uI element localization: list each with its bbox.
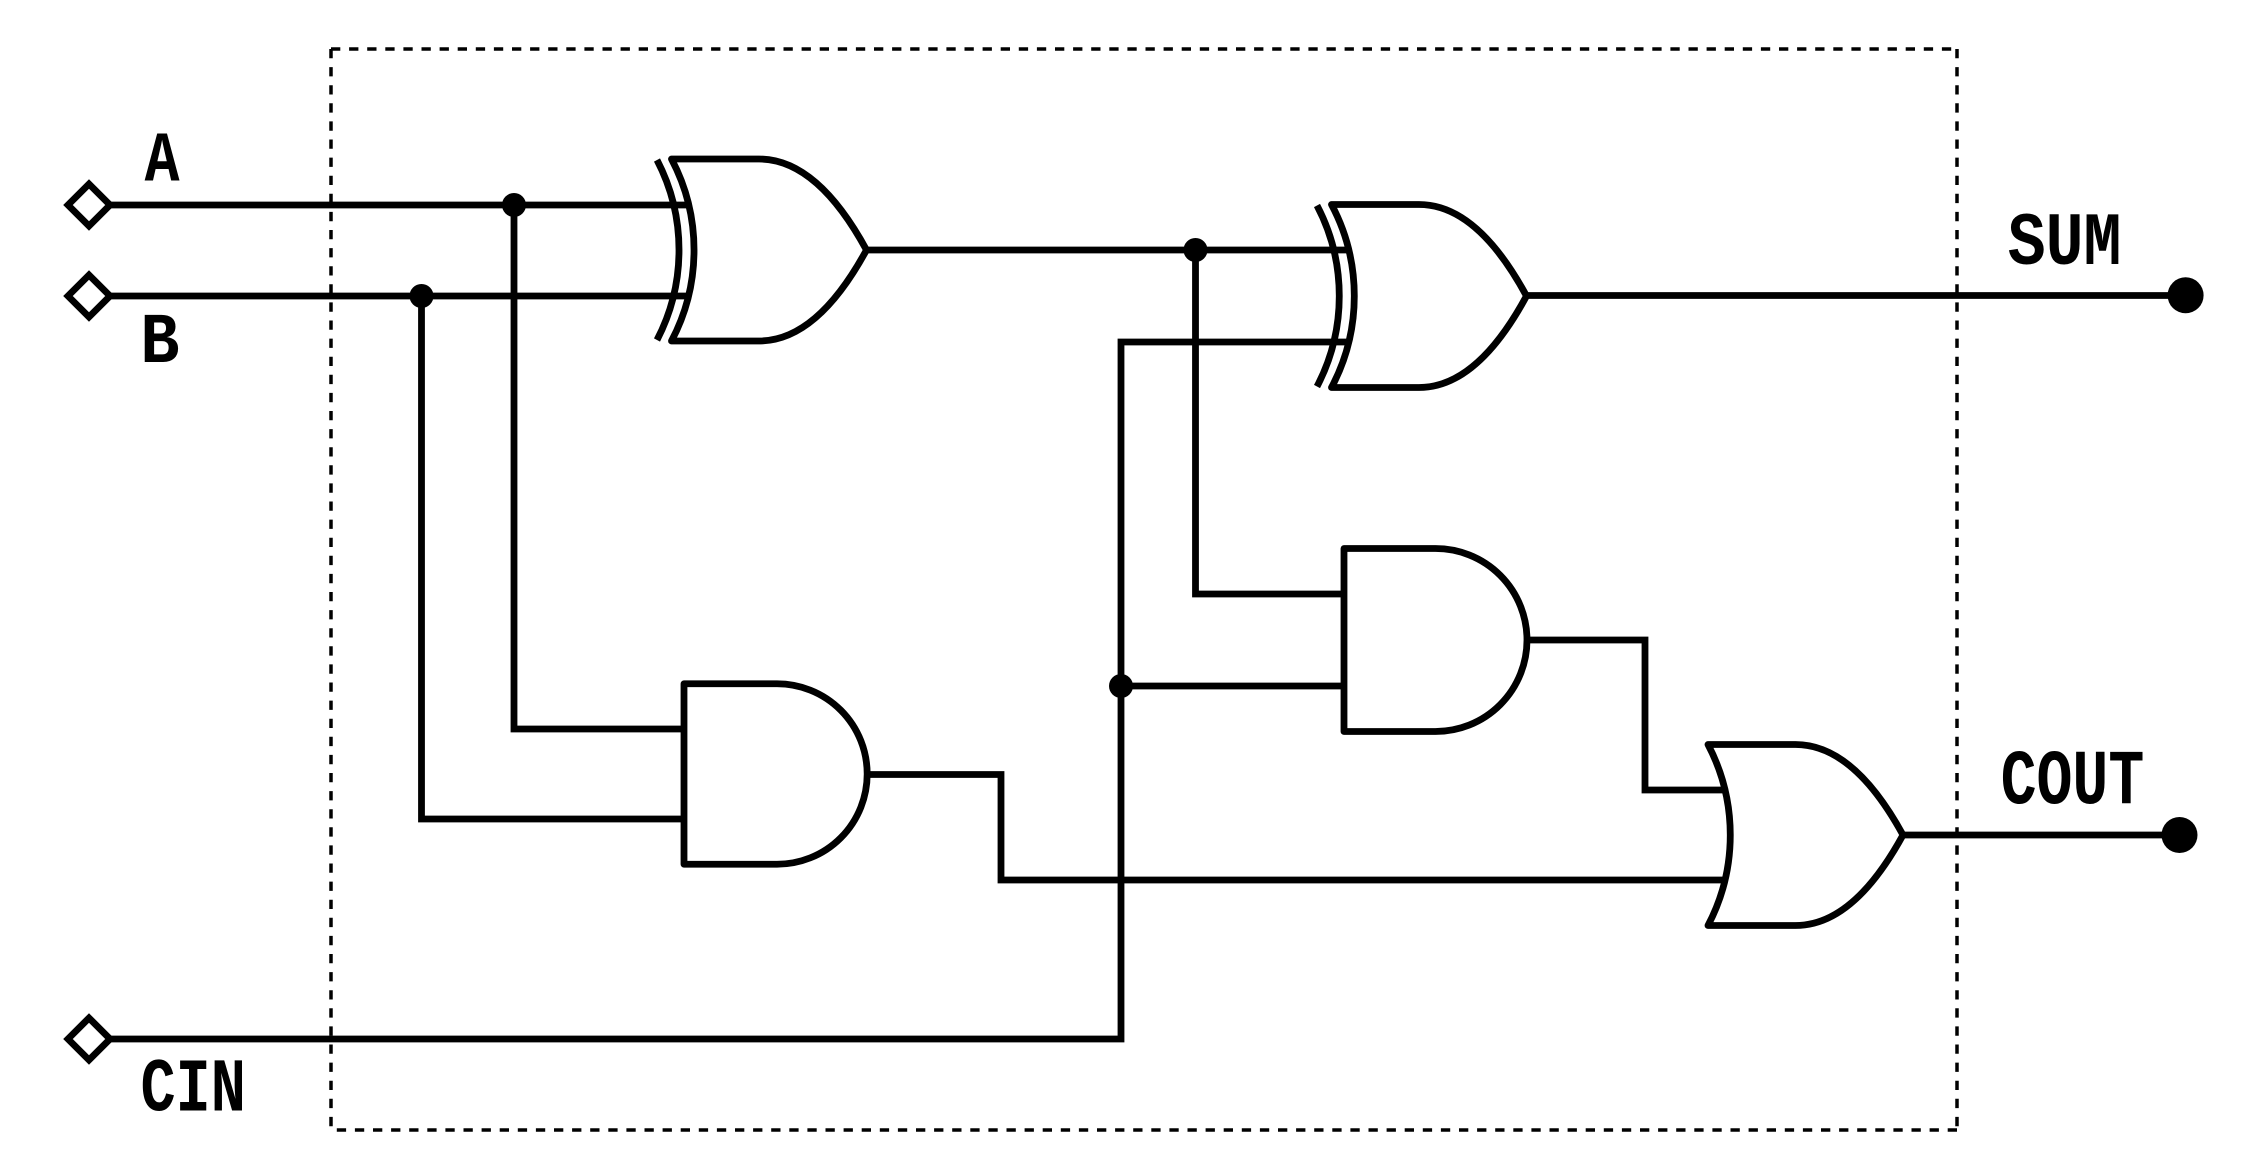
input terminal B diamond bbox=[68, 275, 110, 317]
output terminal SUM dot bbox=[2168, 277, 2204, 313]
svg-text:A: A bbox=[145, 121, 180, 202]
wire XOR1 output to XOR2 top input bbox=[867, 247, 1357, 254]
wire AND1 output to OR bottom input bbox=[868, 775, 1731, 881]
svg-text:B: B bbox=[140, 302, 179, 383]
label CIN bbox=[141, 1049, 246, 1134]
wire A lead bbox=[108, 202, 700, 209]
svg-text:CIN: CIN bbox=[141, 1049, 246, 1134]
xor gate U2 input-side double arc bbox=[1317, 206, 1339, 387]
or gate U5 (carry out) bbox=[1708, 745, 1903, 926]
and gate U4 ((A xor B) and CIN) bbox=[1344, 549, 1527, 732]
node on wire B bbox=[410, 284, 434, 308]
node on XOR1 output bbox=[1184, 238, 1208, 262]
input terminal CIN diamond bbox=[68, 1018, 110, 1060]
wire from node on CIN riser to AND2 bottom input bbox=[1121, 683, 1344, 690]
xor gate U2 (sum = AxorB xor CIN) body bbox=[1332, 205, 1527, 388]
svg-text:COUT: COUT bbox=[2001, 738, 2145, 827]
label COUT bbox=[2001, 738, 2145, 827]
label A bbox=[145, 121, 180, 202]
wire from node on XOR1 output down to AND2 top input bbox=[1196, 250, 1345, 594]
wire AND2 output to OR top input bbox=[1527, 640, 1730, 790]
output terminal COUT dot bbox=[2162, 817, 2198, 853]
wire B lead bbox=[108, 293, 700, 300]
svg-text:SUM: SUM bbox=[2008, 202, 2122, 287]
wire CIN lead up to XOR2 bottom input bbox=[108, 342, 1356, 1039]
xor gate U1 input-side double arc bbox=[657, 160, 679, 340]
input terminal A diamond bbox=[68, 184, 110, 226]
node on wire A bbox=[502, 193, 526, 217]
label SUM bbox=[2008, 202, 2122, 287]
label B bbox=[140, 302, 179, 383]
wire SUM output bbox=[1527, 292, 2187, 299]
wire from node on B down to AND1 bottom input bbox=[422, 296, 685, 819]
and gate U3 (A and B) bbox=[684, 684, 867, 865]
wire from node on A down to AND1 top input bbox=[514, 205, 684, 729]
wire COUT output bbox=[1903, 832, 2180, 839]
dashed subcircuit boundary box bbox=[331, 49, 1957, 1130]
node on CIN riser bbox=[1109, 674, 1133, 698]
xor gate U1 (A xor B) body bbox=[672, 159, 867, 341]
